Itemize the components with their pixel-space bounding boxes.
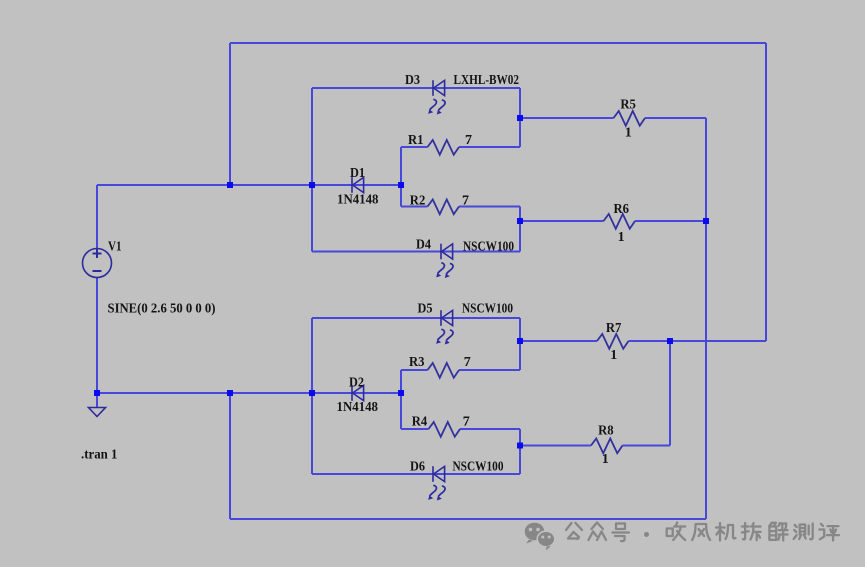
wire x706 vertical <box>705 118 707 519</box>
resistor R5 <box>614 111 646 126</box>
node junction (401,185) <box>398 182 404 188</box>
node junction (312,393) <box>309 390 315 396</box>
node junction (520,445.5) <box>517 443 523 449</box>
wire R6 line <box>520 220 604 222</box>
char hao 号 <box>613 524 630 542</box>
svg-text:LXHL-BW02: LXHL-BW02 <box>454 73 520 88</box>
char ji 机 <box>716 523 736 541</box>
svg-text:D6: D6 <box>410 459 425 474</box>
wire D6 branch horizontal <box>312 473 520 475</box>
wire left outer vertical lower <box>229 393 231 519</box>
wire main bottom horizontal <box>97 392 401 394</box>
wire x312 vertical upper <box>311 88 313 252</box>
wire R1 line <box>401 146 428 148</box>
wire x520 segment D5-R3 <box>519 318 521 370</box>
svg-text:D1: D1 <box>350 166 365 181</box>
wire x520 segment R2-D4 <box>519 207 521 252</box>
LED D6 <box>433 466 445 482</box>
wire top rail <box>230 42 766 44</box>
node junction (230,185) <box>227 182 233 188</box>
ground <box>89 408 106 417</box>
svg-text:R2: R2 <box>410 193 426 208</box>
resistor R6 <box>604 214 636 229</box>
wire D4 branch horizontal <box>312 251 520 253</box>
watermark CJK text hand-drawn <box>566 523 839 542</box>
wire x520 segment D3-R1 <box>519 88 521 147</box>
node junction (401,393) <box>398 390 404 396</box>
svg-text:7: 7 <box>465 133 472 148</box>
wire x520 segment R4-D6 <box>519 429 521 474</box>
svg-text:1: 1 <box>625 125 632 140</box>
wire x670 vertical R7-R8 <box>669 341 671 446</box>
svg-text:R8: R8 <box>598 423 614 438</box>
svg-text:1N4148: 1N4148 <box>337 400 379 415</box>
svg-text:R7: R7 <box>606 321 622 336</box>
char jie 解 <box>769 523 787 541</box>
wire R4 line <box>401 428 429 430</box>
LED D4 <box>441 244 453 260</box>
svg-text:R3: R3 <box>409 355 425 370</box>
svg-text:NSCW100: NSCW100 <box>453 459 504 474</box>
svg-text:.tran 1: .tran 1 <box>81 447 118 462</box>
node junction (520,341) <box>517 338 523 344</box>
resistor R7 <box>597 334 629 349</box>
wire x401 R1-R2 vertical <box>400 147 402 207</box>
LED D3 <box>433 80 445 96</box>
svg-text:D3: D3 <box>405 73 420 88</box>
svg-text:R4: R4 <box>412 415 428 430</box>
diode D1 <box>352 177 364 193</box>
svg-text:7: 7 <box>464 355 471 370</box>
svg-text:NSCW100: NSCW100 <box>462 301 513 316</box>
resistor R1 <box>428 140 460 155</box>
node junction (670,341) <box>667 338 673 344</box>
dot separator <box>644 532 649 537</box>
wire right outer vertical <box>765 43 767 341</box>
char feng 风 <box>692 524 710 540</box>
svg-text:D4: D4 <box>416 237 431 252</box>
wire left outer vertical upper <box>229 43 231 185</box>
svg-text:7: 7 <box>462 193 469 208</box>
svg-text:D5: D5 <box>418 301 433 316</box>
node junction (97,393) <box>94 390 100 396</box>
wire x312 vertical lower <box>311 318 313 474</box>
svg-text:R5: R5 <box>620 98 636 113</box>
diode D2 <box>352 385 364 401</box>
resistor R2 <box>428 200 460 215</box>
char zhong 众 <box>589 523 607 541</box>
node junction (706,221) <box>703 218 709 224</box>
wire R7 line <box>520 340 597 342</box>
wire R2 line <box>401 206 428 208</box>
wire V1 top <box>96 185 98 249</box>
wire x401 R3-R4 vertical <box>400 370 402 429</box>
svg-text:1: 1 <box>610 348 617 363</box>
resistor R8 <box>591 439 623 454</box>
node junction (520,118) <box>517 115 523 121</box>
wechat icon small bubble <box>537 531 555 550</box>
wire main top horizontal <box>97 184 401 186</box>
svg-text:SINE(0 2.6 50 0 0 0): SINE(0 2.6 50 0 0 0) <box>108 301 216 316</box>
wire R8 line <box>520 445 591 447</box>
svg-text:1: 1 <box>602 452 609 467</box>
voltage source V1 <box>83 249 112 278</box>
wire ground stub <box>96 393 98 407</box>
svg-text:R1: R1 <box>408 133 424 148</box>
wechat icon big bubble <box>525 523 545 544</box>
char chai 拆 <box>742 523 761 540</box>
wire V1 bottom <box>96 277 98 393</box>
svg-text:NSCW100: NSCW100 <box>463 240 514 255</box>
wire D5 branch horizontal <box>312 317 520 319</box>
node junction (520,221) <box>517 218 523 224</box>
char ping 评 <box>819 524 839 541</box>
svg-text:1: 1 <box>618 230 625 245</box>
char chui 吹 <box>667 523 686 541</box>
svg-text:R6: R6 <box>614 202 630 217</box>
svg-text:D2: D2 <box>349 375 364 390</box>
LED D5 <box>441 310 453 326</box>
char ce 测 <box>794 524 813 540</box>
svg-text:7: 7 <box>463 415 470 430</box>
wire R5 line <box>520 117 614 119</box>
wire bottom rail <box>230 518 706 520</box>
svg-text:V1: V1 <box>108 239 122 254</box>
wire R3 line <box>401 369 428 371</box>
wire D3 branch horizontal <box>312 87 520 89</box>
node junction (230,393) <box>227 390 233 396</box>
resistor R3 <box>428 363 460 378</box>
node junction (312,185) <box>309 182 315 188</box>
resistor R4 <box>429 422 461 437</box>
svg-text:1N4148: 1N4148 <box>337 192 379 207</box>
char gong 公 <box>566 523 582 539</box>
